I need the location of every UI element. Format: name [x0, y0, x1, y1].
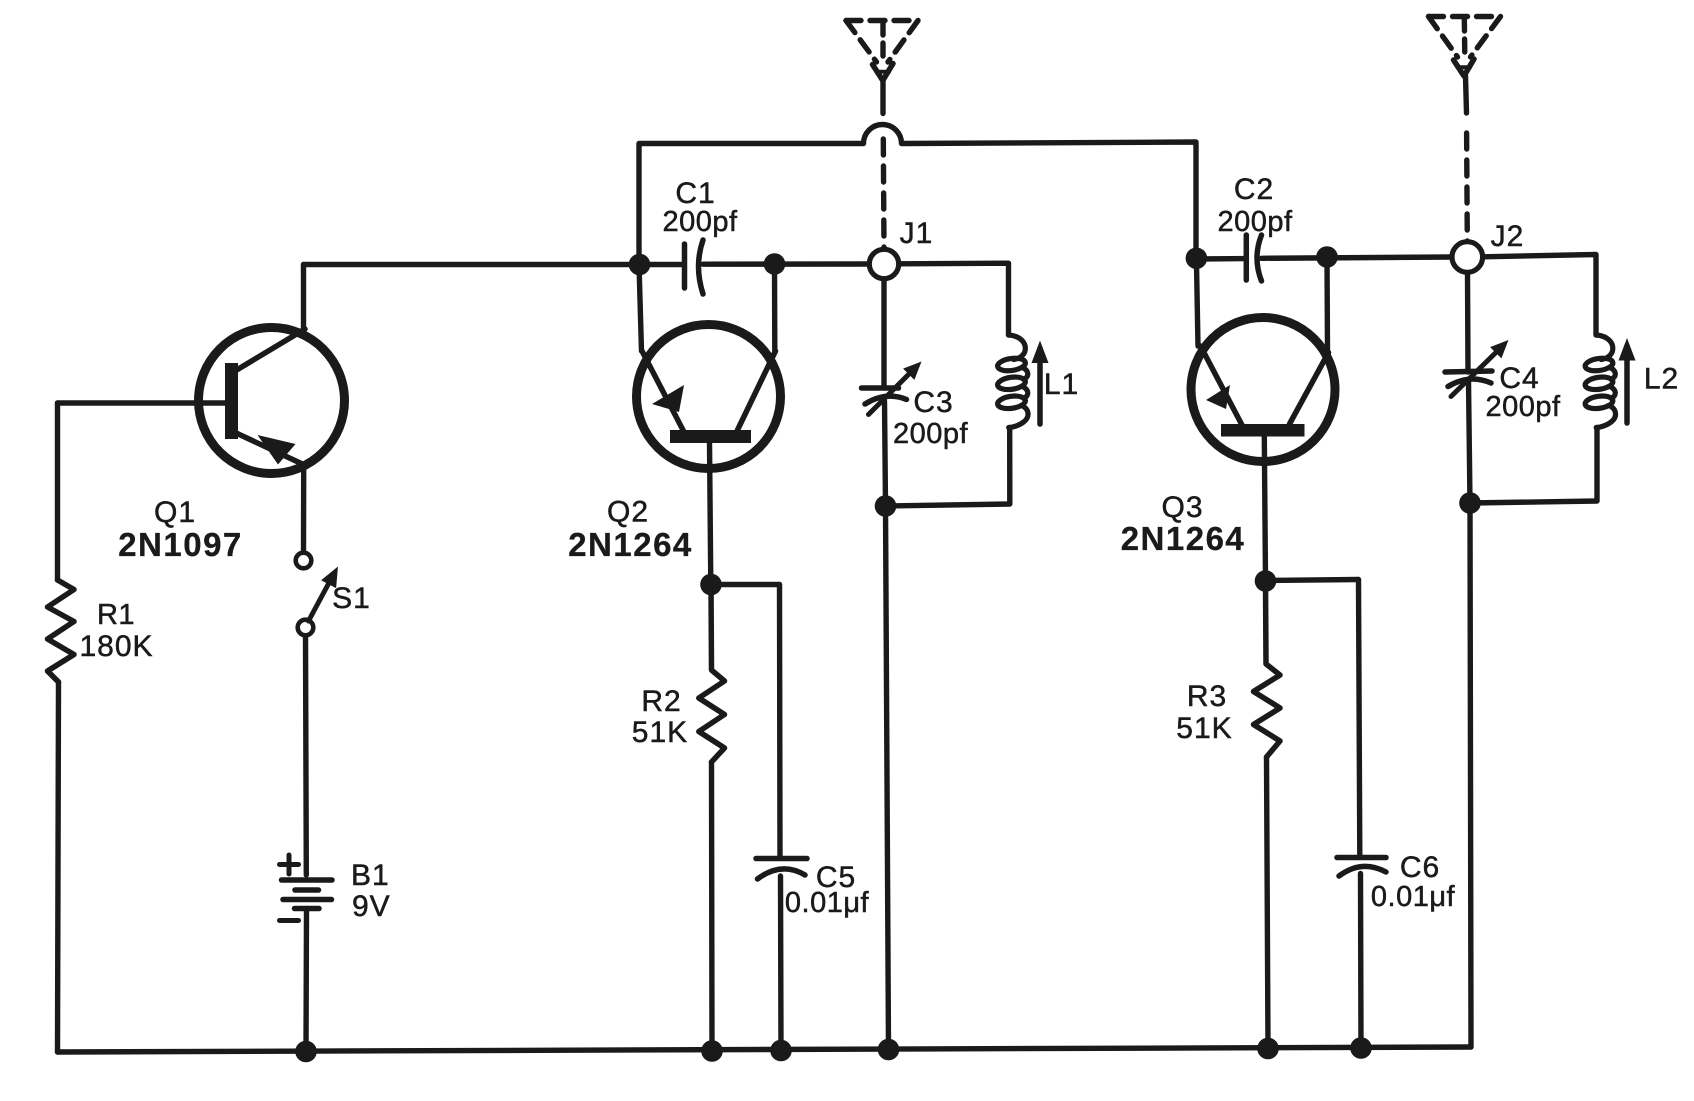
antenna ANT2 (dashed triangle)	[1429, 17, 1501, 58]
wire battery to ground rail	[303, 909, 309, 1052]
svg-text:L1: L1	[1044, 368, 1079, 401]
svg-text:R2: R2	[641, 685, 681, 718]
svg-text:C3: C3	[913, 386, 953, 419]
wire tank node to ground rail	[886, 506, 889, 1050]
resistor R2	[699, 585, 725, 763]
resistor R1	[48, 580, 75, 682]
svg-text:J2: J2	[1491, 220, 1525, 253]
junction node C2 left	[1186, 247, 1208, 269]
inductor L2	[1584, 335, 1615, 428]
wire Q3 collector riser	[1324, 257, 1330, 353]
switch S1	[296, 553, 338, 636]
svg-text:200pf: 200pf	[662, 206, 738, 238]
wire C6 top lead	[1359, 580, 1360, 858]
wire J2 to L2 top corner	[1483, 255, 1596, 336]
battery B1 minus sign	[280, 918, 299, 923]
wire node R3/C6 link	[1266, 580, 1359, 581]
svg-text:9V: 9V	[352, 890, 391, 923]
wire main bus Q1 collector to C1	[304, 262, 685, 267]
wire Q3 emitter riser	[1196, 259, 1198, 347]
antenna ANT1 feed dashes inside triangle	[880, 22, 885, 58]
svg-text:200pf: 200pf	[1217, 206, 1293, 238]
capacitor C2	[1246, 235, 1261, 281]
svg-text:S1: S1	[332, 582, 371, 615]
wire J2 to C4	[1465, 273, 1471, 373]
wire L2 bottom lead	[1470, 428, 1597, 504]
wire J1 to L1 top corner	[899, 263, 1009, 335]
resistor R3	[1254, 581, 1281, 757]
wire Q3 base stem	[1264, 436, 1265, 581]
svg-text:51K: 51K	[1176, 712, 1232, 745]
transistor Q1	[199, 328, 345, 474]
wire Q1 base lead	[58, 400, 228, 405]
wire C6 bottom lead	[1358, 874, 1364, 1049]
wire C5 bottom lead	[778, 876, 784, 1051]
wire R2 bottom lead	[709, 762, 715, 1051]
svg-text:51K: 51K	[632, 716, 688, 749]
jack J1	[869, 249, 898, 278]
wire R1 top lead	[55, 403, 60, 580]
svg-text:B1: B1	[351, 859, 390, 892]
wire J1 to C3	[881, 279, 886, 386]
junction node rail B1	[295, 1041, 317, 1063]
svg-text:R1: R1	[97, 599, 135, 631]
capacitor C5	[756, 859, 807, 880]
transistor Q2	[637, 325, 781, 469]
junction node R2/C5	[700, 574, 722, 596]
wire C1 to J1	[703, 261, 870, 267]
junction node tank1	[875, 495, 897, 517]
antenna ANT2 dashed lead-in to J2	[1464, 133, 1470, 241]
wire Q2 base stem	[710, 442, 711, 585]
inductor L1 arrow	[1032, 341, 1049, 425]
antenna ANT2 feed dashes inside triangle	[1462, 18, 1468, 55]
capacitor C1	[685, 240, 704, 294]
capacitor C4 (variable)	[1445, 340, 1509, 397]
transistor Q3	[1191, 318, 1335, 462]
wire tank node to rail right corner	[1470, 503, 1471, 1047]
wire C2 node to Q3	[1196, 256, 1246, 262]
svg-text:200pf: 200pf	[1485, 391, 1561, 423]
inductor L1	[997, 335, 1028, 428]
junction node R3/C6	[1255, 570, 1277, 592]
wire R3 bottom lead	[1267, 757, 1269, 1049]
svg-text:J1: J1	[900, 217, 934, 250]
wire Q1 emitter to switch	[301, 465, 307, 554]
antenna ANT1 solid stub	[880, 81, 885, 114]
svg-text:R3: R3	[1187, 680, 1227, 713]
jack J2	[1452, 242, 1483, 273]
wire L1 bottom lead	[886, 428, 1010, 507]
junction node C1 left	[629, 254, 651, 276]
inductor L2 arrow	[1619, 338, 1636, 423]
wire bottom rail	[58, 1047, 1472, 1052]
wire C5 top lead	[777, 585, 783, 858]
svg-text:Q2: Q2	[607, 496, 649, 529]
wire top bus with hop over antenna lead	[639, 125, 1196, 266]
battery B1 plus sign	[280, 855, 299, 874]
battery B1	[282, 880, 333, 909]
junction node rail C3	[878, 1039, 900, 1061]
svg-text:180K: 180K	[79, 630, 153, 663]
svg-text:C6: C6	[1400, 851, 1440, 884]
svg-text:2N1097: 2N1097	[118, 526, 243, 563]
wire Q2 collector riser (to C1 right node)	[772, 264, 778, 351]
wire Q2 emitter riser (to C1 left node)	[639, 265, 642, 352]
svg-text:2N1264: 2N1264	[568, 526, 693, 563]
wire C3 to tank node	[885, 401, 886, 506]
junction node C1 right	[764, 253, 786, 275]
svg-text:2N1264: 2N1264	[1121, 520, 1246, 557]
antenna ANT2 apex V	[1454, 59, 1475, 76]
svg-text:L2: L2	[1644, 363, 1679, 396]
wire R1 bottom lead	[58, 682, 59, 1052]
junction node rail R3	[1257, 1038, 1279, 1060]
wire C4 to tank node	[1469, 381, 1471, 503]
junction node rail R2	[701, 1040, 723, 1062]
wire C2 to J2	[1262, 257, 1453, 258]
junction node tank2	[1459, 492, 1481, 514]
wire switch to battery	[303, 635, 309, 876]
svg-text:Q1: Q1	[154, 496, 196, 529]
wire Q1 collector riser	[301, 265, 306, 332]
antenna ANT2 solid stub	[1466, 76, 1467, 113]
capacitor C6	[1337, 858, 1386, 877]
antenna ANT1 apex V	[873, 64, 894, 81]
capacitor C3 (variable)	[862, 362, 922, 415]
svg-text:0.01μf: 0.01μf	[785, 887, 870, 919]
junction node C2 right	[1316, 246, 1338, 268]
junction node rail C5	[770, 1040, 792, 1062]
svg-text:C2: C2	[1234, 173, 1274, 206]
svg-text:200pf: 200pf	[893, 418, 969, 450]
antenna ANT1 dashed lead-in to J1	[881, 139, 887, 249]
wire node R2/C5 link	[711, 582, 780, 587]
junction node rail C6	[1350, 1037, 1372, 1059]
antenna ANT1 (dashed triangle)	[846, 21, 918, 63]
svg-text:0.01μf: 0.01μf	[1371, 881, 1456, 913]
